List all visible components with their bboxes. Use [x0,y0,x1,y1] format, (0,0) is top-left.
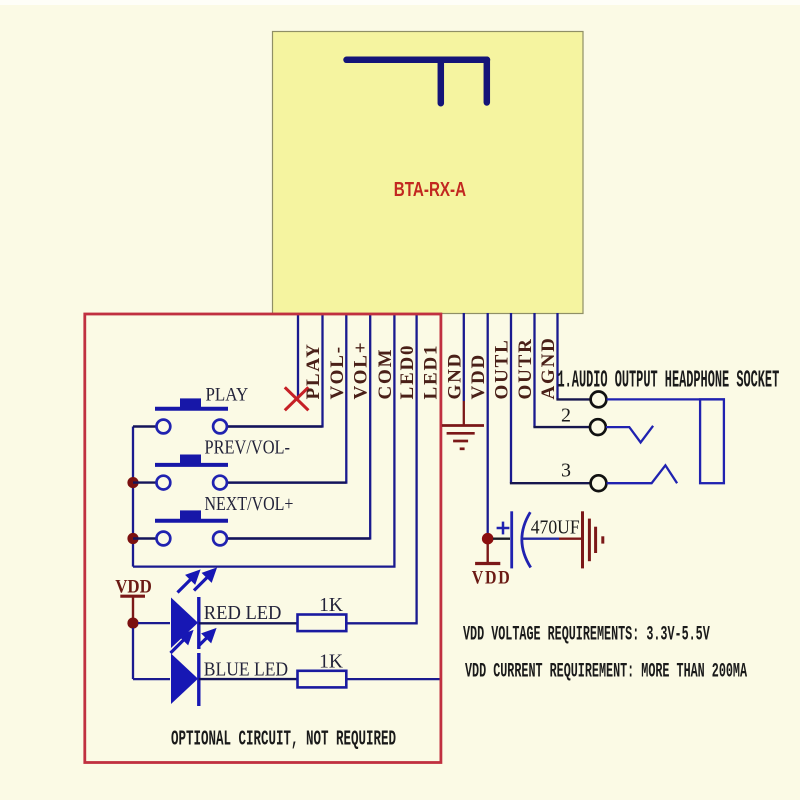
pin AGND wire [556,313,558,399]
pin VDD wire [487,313,489,539]
LED D1 RED LED [171,597,298,649]
svg-text:PLAY: PLAY [206,383,249,404]
svg-text:AGND: AGND [538,336,559,399]
svg-text:LED0: LED0 [397,344,418,400]
svg-text:VDD: VDD [115,576,152,597]
LED rail wires [133,623,170,679]
svg-text:NEXT/VOL+: NEXT/VOL+ [205,493,294,515]
svg-text:PLAY: PLAY [303,342,324,399]
jack tip wire [607,398,725,400]
LED D1 emission arrows [178,570,215,593]
svg-text:1K: 1K [319,595,343,616]
LED D2 emission arrows [199,631,214,646]
jack terminal 1 [591,392,607,408]
junction dot VDD rail [127,618,138,629]
optional circuit box [85,314,441,763]
VDD supply symbol (LED rail) [120,596,145,620]
pin VOL+ wire [228,313,371,539]
pin LED0 wire to resistor R1 [346,313,416,623]
svg-text:LED1: LED1 [421,344,442,400]
svg-text:OPTIONAL CIRCUIT, NOT REQUIRED: OPTIONAL CIRCUIT, NOT REQUIRED [171,729,396,752]
ground symbol (cap, rotated) [583,511,603,568]
capacitor C1 470UF [493,511,581,568]
pin NC wire (crossed out) [297,313,299,399]
switch S1 PLAY [133,398,323,433]
svg-text:RED LED: RED LED [204,603,282,625]
svg-text:BLUE LED: BLUE LED [204,659,288,681]
svg-text:OUTL: OUTL [492,338,513,399]
junction dot on rail row3 [127,533,138,544]
switch S3 NEXT/VOL+ [133,510,370,545]
antenna logo on module [347,60,488,103]
junction dot VDD (cap) [482,533,494,545]
svg-text:VDD CURRENT REQUIREMENT: MORE: VDD CURRENT REQUIREMENT: MORE THAN 200MA [465,659,747,682]
resistor R2 1K [298,671,347,688]
jack sleeve body [700,399,724,483]
svg-text:470UF: 470UF [531,516,580,539]
svg-text:BTA-RX-A: BTA-RX-A [394,178,466,200]
pin LED1 wire to resistor R2 [346,313,440,679]
svg-text:COM: COM [375,348,396,400]
pin OUTR wire [533,313,535,427]
resistor R1 1K [298,615,347,632]
pin GND wire [463,313,465,401]
switch S2 PREV/VOL- [133,455,346,490]
pin OUTL wire [510,313,512,483]
pin COM wire to button common rail [133,313,394,567]
jack terminal 2 [590,419,606,435]
jack terminal 3 [591,475,607,491]
svg-text:1K: 1K [319,652,343,673]
VDD supply symbol (cap) [475,544,500,564]
jack sleeve contact (terminal 3) [607,465,678,483]
svg-text:OUTR: OUTR [515,337,536,399]
no-connect X on NC pin [285,387,309,410]
svg-text:1.AUDIO OUTPUT HEADPHONE SOCKE: 1.AUDIO OUTPUT HEADPHONE SOCKET [558,366,780,394]
LED D2 emission arrow (left, under D1 triangle) [171,633,192,654]
svg-text:VDD: VDD [468,353,489,400]
svg-text:3: 3 [561,460,571,482]
svg-text:VDD VOLTAGE REQUIREMENTS: 3.3V: VDD VOLTAGE REQUIREMENTS: 3.3V-5.5V [463,622,710,645]
button common rail wire [132,427,134,567]
module U1 BTA-RX-A body [273,32,584,314]
svg-text:VDD: VDD [472,566,512,588]
svg-text:VOL+: VOL+ [351,341,372,400]
svg-text:2: 2 [561,405,571,427]
LED D2 BLUE LED [171,653,298,706]
pin PLAY wire [228,313,323,427]
ground symbol (GND pin) [442,426,484,449]
pin VOL- wire [228,313,347,483]
svg-text:PREV/VOL-: PREV/VOL- [205,436,291,458]
junction dot on rail row2 [127,477,138,488]
svg-text:VOL-: VOL- [327,345,348,399]
jack ring contact (terminal 2) [606,426,653,443]
svg-text:GND: GND [444,352,465,400]
